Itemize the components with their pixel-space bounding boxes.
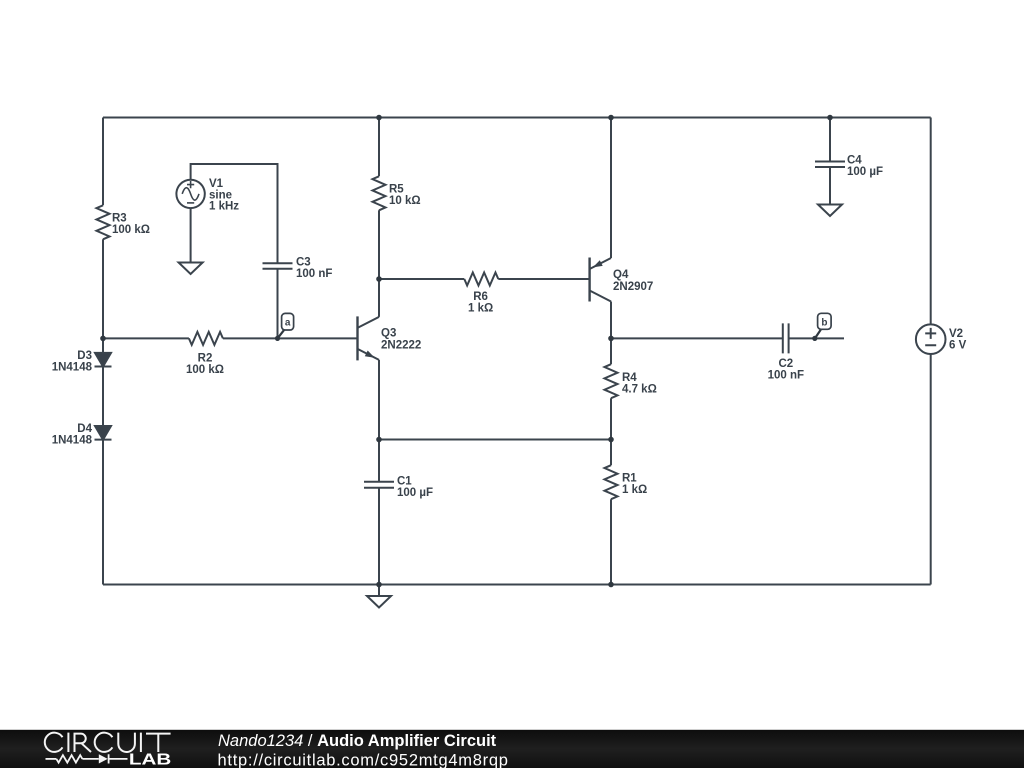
- svg-text:4.7 kΩ: 4.7 kΩ: [622, 384, 657, 396]
- svg-text:10 kΩ: 10 kΩ: [389, 195, 421, 207]
- svg-text:R2: R2: [198, 353, 213, 365]
- svg-text:http://circuitlab.com/c952mtg4: http://circuitlab.com/c952mtg4m8rqp: [218, 752, 509, 768]
- node a: [275, 313, 294, 341]
- label Q3: [381, 328, 421, 352]
- svg-text:V2: V2: [949, 328, 963, 340]
- logo CIRCUIT: [45, 733, 171, 752]
- label R4: [622, 372, 657, 396]
- svg-text:C3: C3: [296, 257, 311, 269]
- wire node b row: [611, 337, 844, 339]
- svg-text:R1: R1: [622, 473, 637, 485]
- logo LAB: [129, 752, 171, 768]
- resistor R3: [97, 205, 110, 239]
- svg-text:b: b: [821, 317, 827, 328]
- wire middle row y439: [379, 439, 611, 441]
- resistor R6: [464, 273, 498, 286]
- svg-text:1 kHz: 1 kHz: [209, 201, 239, 213]
- svg-text:R3: R3: [112, 213, 127, 225]
- footer title text: [218, 732, 509, 768]
- svg-text:100 nF: 100 nF: [768, 369, 804, 381]
- svg-text:100 µF: 100 µF: [847, 166, 883, 178]
- wire bottom rail: [103, 584, 931, 586]
- svg-text:LAB: LAB: [129, 752, 171, 768]
- svg-text:a: a: [285, 318, 291, 329]
- svg-text:100 nF: 100 nF: [296, 268, 332, 280]
- label V2: [949, 328, 967, 352]
- footer bar: [0, 730, 1024, 768]
- source V2: [916, 324, 946, 354]
- svg-text:Q3: Q3: [381, 328, 396, 340]
- capacitor C2: [783, 323, 789, 353]
- svg-text:C4: C4: [847, 155, 862, 167]
- logo resistor-diode symbol: [46, 754, 128, 763]
- label C3: [296, 257, 332, 281]
- svg-text:Q4: Q4: [613, 269, 629, 281]
- svg-text:R4: R4: [622, 372, 637, 384]
- label R1: [622, 473, 647, 497]
- diode D4: [95, 426, 112, 440]
- junction Q4 collector: [608, 336, 614, 342]
- svg-text:1N4148: 1N4148: [52, 435, 93, 447]
- junction mid row x379: [376, 437, 382, 443]
- wire V1 loop to C3: [191, 164, 278, 338]
- ground below V1: [179, 263, 203, 275]
- junction top rail x379: [376, 115, 382, 121]
- capacitor C4: [815, 162, 845, 168]
- junction bottom rail x379: [376, 582, 382, 588]
- node b: [812, 313, 831, 341]
- label C1: [397, 476, 433, 499]
- svg-text:D3: D3: [77, 350, 92, 362]
- svg-text:Nando1234 / Audio Amplifier Ci: Nando1234 / Audio Amplifier Circuit: [218, 732, 497, 750]
- label R6: [468, 291, 493, 315]
- svg-text:1 kΩ: 1 kΩ: [622, 484, 647, 496]
- svg-text:C1: C1: [397, 476, 412, 488]
- svg-text:1N4148: 1N4148: [52, 362, 93, 374]
- label Q4: [613, 269, 653, 293]
- resistor R1: [605, 465, 618, 499]
- transistor Q3: [358, 316, 380, 360]
- svg-text:6 V: 6 V: [949, 340, 967, 352]
- wire V1 ground stem: [190, 208, 192, 262]
- label D4: [52, 423, 93, 447]
- junction left rail R2: [100, 336, 106, 342]
- junction mid row x611: [608, 437, 614, 443]
- label V1: [209, 178, 239, 213]
- resistor R4: [605, 364, 618, 398]
- ground below C4: [818, 205, 842, 217]
- svg-text:R5: R5: [389, 184, 404, 196]
- wire R6 row: [379, 278, 590, 280]
- label R2: [186, 353, 224, 377]
- resistor R2: [189, 332, 223, 345]
- svg-text:100 µF: 100 µF: [397, 487, 433, 499]
- svg-text:100 kΩ: 100 kΩ: [186, 364, 224, 376]
- capacitor C1: [364, 482, 394, 488]
- svg-text:100 kΩ: 100 kΩ: [112, 224, 150, 236]
- svg-text:C2: C2: [778, 358, 793, 370]
- wire R2 row: [103, 337, 358, 339]
- wire right rail: [930, 118, 932, 585]
- label R3: [112, 213, 150, 237]
- label R5: [389, 184, 421, 207]
- junction R6 x379: [376, 276, 382, 282]
- label C4: [847, 155, 883, 179]
- transistor Q4: [590, 258, 611, 302]
- label D3: [52, 350, 93, 374]
- svg-text:sine: sine: [209, 189, 232, 201]
- junction top rail x830: [827, 115, 833, 121]
- junction top rail x611: [608, 115, 614, 121]
- diode D3: [95, 353, 112, 367]
- junction bottom rail x611: [608, 582, 614, 588]
- capacitor C3: [263, 263, 293, 269]
- label C2: [768, 358, 804, 382]
- ground bottom center: [367, 585, 391, 608]
- wire column x379: [378, 118, 380, 585]
- svg-text:D4: D4: [77, 423, 92, 435]
- wire left rail: [102, 118, 104, 585]
- svg-text:2N2907: 2N2907: [613, 281, 653, 293]
- svg-text:1 kΩ: 1 kΩ: [468, 302, 493, 314]
- svg-text:2N2222: 2N2222: [381, 340, 421, 352]
- wire C4 stem: [829, 118, 831, 205]
- wire top rail: [103, 117, 931, 119]
- resistor R5: [373, 176, 386, 210]
- svg-text:R6: R6: [473, 291, 488, 303]
- svg-text:V1: V1: [209, 178, 224, 190]
- source V1: [176, 180, 204, 208]
- wire column x611: [610, 118, 612, 585]
